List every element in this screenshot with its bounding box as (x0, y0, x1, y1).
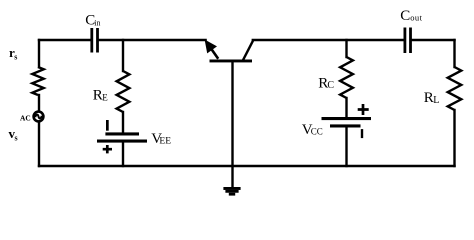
battery V_EE (97, 132, 147, 142)
wire V_EE to bottom rail (122, 141, 124, 166)
capacitor C_in (90, 28, 99, 53)
svg-text:out: out (410, 13, 422, 23)
svg-text:L: L (433, 95, 439, 106)
wire R_C branch upper (345, 40, 347, 57)
transistor Q1 base bar (210, 60, 253, 63)
battery V_EE plus sign (103, 145, 112, 153)
svg-text:s: s (14, 53, 17, 62)
resistor R_L (448, 67, 462, 110)
svg-text:C: C (327, 80, 334, 91)
svg-text:s: s (15, 134, 18, 143)
wire left vertical lower (38, 123, 40, 166)
wire R_E to V_EE (122, 112, 124, 134)
capacitor C_out (404, 28, 412, 54)
svg-text:EE: EE (159, 136, 171, 146)
wire top-left segment (C_in to emitter) (99, 39, 206, 41)
wire left vertical middle (38, 95, 40, 110)
svg-text:CC: CC (311, 126, 323, 136)
wire base lead to ground (231, 61, 233, 187)
source AC v_s (34, 112, 44, 122)
resistor R_C (340, 57, 353, 98)
svg-text:E: E (102, 93, 108, 103)
wire left vertical upper (38, 40, 40, 67)
wire top-right segment (C_out to right corner) (412, 39, 455, 41)
wire bottom rail (39, 165, 455, 167)
svg-text:R: R (93, 88, 103, 104)
wire top-right segment (collector to C_out) (253, 39, 404, 41)
battery V_CC minus tick (361, 129, 363, 138)
wire right vertical lower (453, 110, 455, 166)
battery V_CC plus sign (358, 104, 369, 115)
wire R_C to V_CC (345, 98, 347, 118)
resistor R_E (117, 71, 130, 112)
transistor Q1 collector (243, 41, 253, 61)
battery V_CC (322, 117, 372, 128)
svg-text:AC: AC (20, 114, 31, 123)
wire R_E branch upper (122, 40, 124, 71)
battery V_EE minus tick (106, 120, 109, 131)
wire right vertical upper (453, 40, 455, 67)
wire V_CC to bottom rail (345, 127, 347, 166)
ground (223, 187, 240, 196)
resistor r_s (32, 67, 43, 95)
svg-text:C: C (400, 8, 410, 24)
wire top-left segment (left corner to C_in) (39, 39, 90, 41)
transistor Q1 emitter with arrow (205, 40, 219, 59)
svg-text:in: in (94, 18, 100, 27)
